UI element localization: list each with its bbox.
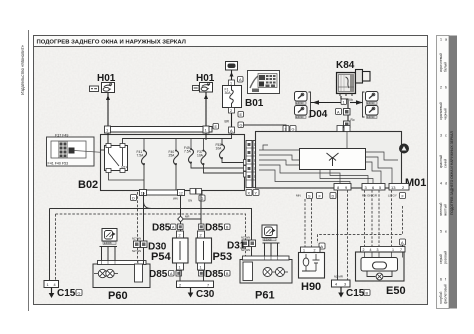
arrow on wire to K84: [313, 100, 320, 105]
ground at C30: [188, 288, 194, 298]
heater P53 box: [196, 238, 212, 263]
svg-text:P54: P54: [151, 251, 171, 263]
svg-text:B01: B01: [245, 98, 264, 109]
svg-text:7.5A: 7.5A: [137, 154, 145, 158]
wire junction to P53: [183, 218, 202, 220]
mirror icon above P60: [102, 229, 117, 245]
svg-text:MN: MN: [296, 194, 301, 198]
M01 corner device circle: [399, 144, 409, 154]
svg-text:30A: 30A: [225, 91, 232, 95]
tag A at E50: [400, 239, 406, 245]
fuse F41 7.5A: [137, 139, 147, 191]
svg-text:4: 4: [370, 248, 372, 252]
arrow on wire to right pair: [356, 100, 363, 105]
svg-text:25A: 25A: [169, 154, 176, 158]
svg-text:ПОДОГРЕВ ЗАДНЕГО ОКНА И НАРУЖН: ПОДОГРЕВ ЗАДНЕГО ОКНА И НАРУЖНЫХ ЗЕРКАЛ: [450, 131, 454, 215]
M01 bottom pin box 3 6 5: [362, 184, 385, 191]
svg-text:2: 2: [230, 109, 232, 113]
bus pin 1 right: [203, 126, 209, 133]
wire battery to fuse F1: [231, 70, 233, 80]
legend entry 6: [439, 278, 448, 305]
svg-text:Vb: Vb: [349, 98, 353, 102]
node A pin into B02: [229, 127, 235, 133]
svg-text:1: 1: [230, 82, 232, 86]
svg-text:H90: H90: [301, 281, 321, 293]
svg-text:GN: GN: [188, 199, 192, 203]
connector D85 top-left pins: [171, 224, 184, 230]
P53 element line: [203, 241, 205, 260]
svg-text:C30: C30: [196, 289, 215, 300]
connector D04 pin box: [344, 109, 351, 116]
svg-text:b: b: [445, 86, 447, 90]
mirror icon above P61: [262, 225, 277, 241]
wires M01 to E50: [365, 190, 392, 246]
wire H01 right down to bus: [205, 92, 207, 126]
right sidebar legend: [437, 36, 458, 309]
svg-text:3: 3: [440, 134, 442, 138]
ground at C15 right: [338, 287, 344, 298]
legend entry 5: [439, 230, 448, 265]
heated mirror P61 box: [240, 256, 292, 283]
wire B02 to P53: [200, 195, 202, 225]
bracket for right connector pair: [363, 92, 365, 117]
tag near D04 left: [341, 99, 347, 105]
M01 internal wires left: [259, 145, 350, 184]
svg-text:7: 7: [400, 248, 402, 252]
tag F under M01: [317, 193, 323, 199]
svg-text:синий: синий: [444, 159, 448, 168]
wire run upper: B02 to P61 branch: [50, 209, 252, 241]
elbow wire bar to run: [144, 196, 152, 209]
svg-text:белый: белый: [444, 62, 448, 72]
svg-text:желтый: желтый: [444, 204, 448, 216]
svg-text:C15: C15: [346, 288, 365, 299]
wires B02 to D30: [138, 192, 144, 264]
M01 inner unit box: [300, 149, 366, 170]
connector pair icon left lower (E3030): [295, 106, 308, 119]
svg-text:C15: C15: [57, 288, 76, 299]
svg-text:1: 1: [303, 249, 305, 253]
svg-text:2: 2: [440, 86, 442, 90]
B02 pin pair right of bar: [190, 189, 202, 195]
svg-text:D85: D85: [152, 223, 171, 234]
wire C15 left vertical 1: [49, 209, 51, 282]
P60 heater elements: [98, 269, 114, 277]
svg-text:P61: P61: [255, 290, 275, 302]
svg-text:D85: D85: [149, 269, 168, 280]
bus pin 1 left: [105, 126, 111, 133]
connector C15 left box: [44, 281, 59, 288]
bar left pin: [140, 190, 147, 196]
battery feed icon: [226, 62, 238, 71]
wires M01 to H90: [305, 199, 312, 247]
M01 top tag pair: [283, 126, 296, 132]
svg-text:оранжевый: оранжевый: [439, 102, 443, 120]
connector below D04 pin box: [344, 121, 351, 128]
wire from B01 area to M01 top: [244, 125, 287, 132]
heater P53 bottom pin: [198, 263, 205, 270]
svg-text:RT1: RT1: [122, 165, 128, 169]
heater P54 box: [173, 238, 189, 263]
connector strip X column: [246, 141, 252, 188]
svg-text:G: G: [240, 124, 243, 128]
E50 inner unit: [361, 252, 403, 271]
M01 bottom pin box 8 9: [334, 184, 351, 191]
svg-text:E3030: E3030: [367, 101, 375, 105]
svg-text:3: 3: [344, 283, 346, 287]
connector pair icon left of K84 (E3030): [295, 92, 308, 105]
svg-text:4: 4: [335, 283, 337, 287]
connector D85 top-right pins: [199, 224, 205, 230]
svg-text:6: 6: [440, 278, 442, 282]
connector D31 pins: [242, 240, 256, 247]
B02 bottom connector bar: [140, 190, 184, 195]
P61 inner connector rect: [243, 262, 253, 281]
svg-text:D04: D04: [309, 109, 328, 120]
diagram frame: [34, 36, 428, 305]
connector D04 tag A: [336, 109, 342, 115]
connector pair icon right of K84 (E3030): [366, 92, 379, 105]
svg-text:NZ MR: NZ MR: [334, 275, 343, 279]
svg-text:E3008: E3008: [104, 241, 112, 245]
svg-text:2: 2: [179, 234, 181, 238]
svg-text:NZ WN: NZ WN: [241, 236, 250, 240]
svg-text:12: 12: [179, 192, 183, 196]
arrow on battery wire: [230, 72, 234, 77]
tag E below fuse: [238, 112, 244, 118]
title bar: [34, 36, 428, 47]
connector D85 bottom-left pins: [169, 271, 182, 277]
svg-text:E50: E50: [386, 285, 406, 297]
fuse F1 top pin: [229, 80, 235, 86]
wire H01 left down to bus: [107, 93, 109, 126]
M01 bottom pin box 13 2: [389, 184, 409, 191]
svg-text:10A: 10A: [197, 154, 204, 158]
fuse F53 10A: [216, 143, 245, 163]
svg-text:5: 5: [440, 230, 442, 234]
connector D30 pins: [134, 241, 148, 248]
P54 element line: [179, 241, 181, 260]
svg-text:1: 1: [343, 101, 345, 105]
svg-text:4: 4: [54, 283, 56, 287]
tag B after D85 bottom-right: [225, 271, 231, 277]
svg-text:NZ WN: NZ WN: [132, 237, 141, 241]
svg-text:E3030: E3030: [296, 115, 304, 119]
svg-text:Ro: Ro: [351, 118, 355, 122]
tag E near bus: [213, 124, 219, 130]
svg-text:D85: D85: [205, 223, 224, 234]
svg-text:F37 F49: F37 F49: [55, 134, 68, 138]
fuse F1 bottom pin: [229, 108, 235, 114]
fusebox location inset B01: [248, 71, 280, 94]
control unit M01 box: [256, 132, 402, 189]
relay lower wire to bottom: [109, 173, 145, 181]
svg-text:7: 7: [207, 284, 209, 288]
connector D85 bottom-right pins: [199, 271, 205, 277]
svg-text:F41 F40 F53: F41 F40 F53: [48, 162, 69, 166]
arrow on H01 right wire: [204, 94, 208, 99]
svg-text:4: 4: [440, 182, 442, 186]
tag X under strip: [246, 190, 252, 196]
legend panel: [437, 36, 450, 309]
svg-text:P53: P53: [213, 251, 233, 263]
arrow on H01 left wire: [106, 95, 110, 100]
H01 right code plate: [193, 86, 200, 91]
connector pair icon right lower (E3030): [366, 106, 379, 119]
wire bus pin1 right into B02: [205, 133, 207, 140]
wires P54 P53 to C30: [180, 270, 204, 281]
heated mirror P60 box: [93, 261, 150, 288]
svg-text:E3030: E3030: [367, 115, 375, 119]
svg-text:MR: MR: [185, 215, 189, 219]
svg-text:BR: BR: [225, 120, 230, 124]
fuse F40 25A: [169, 139, 179, 191]
svg-text:G: G: [78, 292, 81, 296]
B02 right edge pins: [244, 160, 250, 178]
svg-text:e: e: [445, 230, 447, 234]
fuse F1 30A box: [223, 86, 242, 108]
svg-text:D: D: [332, 195, 335, 199]
svg-text:голубой: голубой: [439, 291, 443, 304]
legend entry 1: [439, 38, 448, 73]
wire fuse F1 down to B02: [231, 113, 233, 127]
svg-text:красный: красный: [439, 155, 443, 168]
svg-text:D85: D85: [205, 269, 224, 280]
tag F right under M01: [400, 193, 406, 199]
wires M01 to C15 right: [338, 190, 348, 280]
scan noise overlay: [34, 36, 427, 304]
wires D31 to P61: [246, 247, 252, 263]
svg-text:13: 13: [391, 185, 396, 190]
svg-text:c: c: [445, 134, 447, 138]
wire C15 left vertical 2 dashed: [55, 214, 57, 281]
bracket for left connector pair: [309, 92, 311, 117]
svg-text:Издательство «Монолит»: Издательство «Монолит»: [20, 45, 25, 95]
heater P53 top pin: [198, 231, 205, 238]
svg-text:15: 15: [141, 192, 145, 196]
wires mirror icon to P61: [263, 243, 280, 257]
svg-text:G: G: [292, 128, 295, 132]
M01 internal wires right: [320, 132, 398, 185]
svg-text:розовый: розовый: [444, 251, 448, 264]
wire relay top across B02: [123, 139, 223, 144]
tag G right of bar: [199, 195, 205, 201]
P61 heater elements: [263, 268, 285, 277]
tag G lower: [238, 122, 244, 128]
switch E50 box: [356, 252, 405, 281]
svg-text:D: D: [132, 197, 135, 201]
wires mirror icon to P60: [100, 247, 118, 262]
P60 element crosses: [94, 271, 118, 277]
fuse panel B02 box: [101, 135, 245, 191]
H90 lamp symbol: [302, 254, 320, 271]
tag D under M01: [330, 193, 336, 199]
svg-text:коричневый: коричневый: [439, 53, 443, 72]
svg-text:2: 2: [314, 249, 316, 253]
svg-text:E3008: E3008: [264, 237, 272, 241]
fuse F49 7.5A: [184, 139, 244, 169]
fusebox location inset (F37 F49 / F41 F40 F53): [47, 134, 105, 167]
svg-text:зеленый: зеленый: [439, 203, 443, 216]
svg-text:f: f: [445, 278, 446, 282]
connector strip Y column: [253, 141, 259, 188]
E50 bulb symbol: [367, 271, 392, 280]
tag B after D85 top-right: [225, 224, 231, 230]
svg-text:d: d: [445, 182, 447, 186]
heater P54 top pin: [177, 231, 184, 238]
svg-text:WN: WN: [173, 197, 178, 201]
M01 top pin boxes at K84 wire: [337, 126, 350, 132]
svg-text:NZ WN: NZ WN: [132, 249, 141, 253]
lamp H90 top strip: [301, 247, 321, 253]
legend entry 4: [439, 182, 448, 217]
svg-text:ПОДОГРЕВ ЗАДНЕГО ОКНА И НАРУЖН: ПОДОГРЕВ ЗАДНЕГО ОКНА И НАРУЖНЫХ ЗЕРКАЛ: [37, 40, 186, 46]
P61 element crosses: [265, 269, 289, 275]
svg-text:10A: 10A: [216, 147, 223, 151]
heater P54 bottom pin: [177, 263, 184, 270]
svg-text:1: 1: [179, 266, 181, 270]
wire K84 to right pair: [350, 102, 363, 104]
svg-text:1: 1: [47, 283, 49, 287]
left margin rule: [28, 30, 30, 311]
svg-text:3: 3: [377, 248, 379, 252]
svg-text:K84: K84: [336, 60, 355, 71]
svg-text:1: 1: [392, 248, 394, 252]
lamp H01 left symbol: [102, 83, 115, 93]
tag S under M01: [307, 193, 313, 199]
wire bus pin1 left into relay: [107, 133, 109, 144]
tag A at H90: [319, 243, 325, 249]
svg-text:LB GY: LB GY: [388, 194, 397, 198]
svg-text:фиолетовый: фиолетовый: [444, 284, 448, 304]
svg-text:серый: серый: [439, 254, 443, 264]
legend grey bar: [449, 36, 457, 309]
svg-text:черный: черный: [444, 108, 448, 120]
relay coil wires to left edge: [101, 149, 105, 151]
relay K84 drawing: [337, 70, 371, 97]
fuse F37 10A: [197, 139, 244, 174]
lamp H01 right symbol: [200, 83, 213, 93]
P60 inner connector rect: [135, 264, 143, 282]
wire K84 down to M01: [341, 96, 348, 131]
svg-text:2: 2: [200, 234, 202, 238]
wire B02 to P54 junction: [180, 196, 182, 232]
svg-text:1: 1: [440, 38, 442, 42]
wire E50 A-branch to H90 A tag: [318, 206, 403, 243]
wire F53 feed from node A: [222, 133, 232, 145]
tag G at C15 left: [76, 290, 82, 296]
svg-text:B02: B02: [78, 179, 98, 191]
svg-text:P60: P60: [108, 290, 128, 302]
wire run lower dashed: C15 to P61: [56, 214, 246, 240]
connector C30 bar: [177, 281, 214, 288]
H01 left code plate: [90, 86, 99, 92]
svg-text:a: a: [445, 38, 447, 42]
svg-text:2: 2: [363, 248, 365, 252]
relay RT1 inside B02: [105, 144, 128, 173]
svg-text:E3030: E3030: [296, 101, 304, 105]
bus bar between H01 lamps: [105, 127, 212, 133]
wire stub to G tag: [201, 191, 203, 195]
legend entry 2: [439, 86, 448, 121]
legend entry 3: [439, 134, 448, 169]
junction node diamond: [178, 216, 184, 222]
tag A right of fuse: [238, 77, 244, 83]
svg-text:7.5A: 7.5A: [184, 150, 192, 154]
wire left pair to K84: [311, 102, 346, 104]
ground at C15 left: [49, 288, 55, 299]
tag D under B02: [131, 195, 137, 201]
tag B at C15 right: [364, 290, 370, 296]
lamp H90 box: [299, 253, 325, 279]
svg-text:2: 2: [179, 284, 181, 288]
switch E50 top strip: [361, 247, 406, 253]
bar right pin: [178, 190, 185, 196]
connector C15 right bar: [332, 280, 351, 287]
svg-text:1: 1: [200, 266, 202, 270]
wire A tag to E50 strip: [402, 245, 404, 247]
tag Y under strip: [253, 190, 259, 196]
